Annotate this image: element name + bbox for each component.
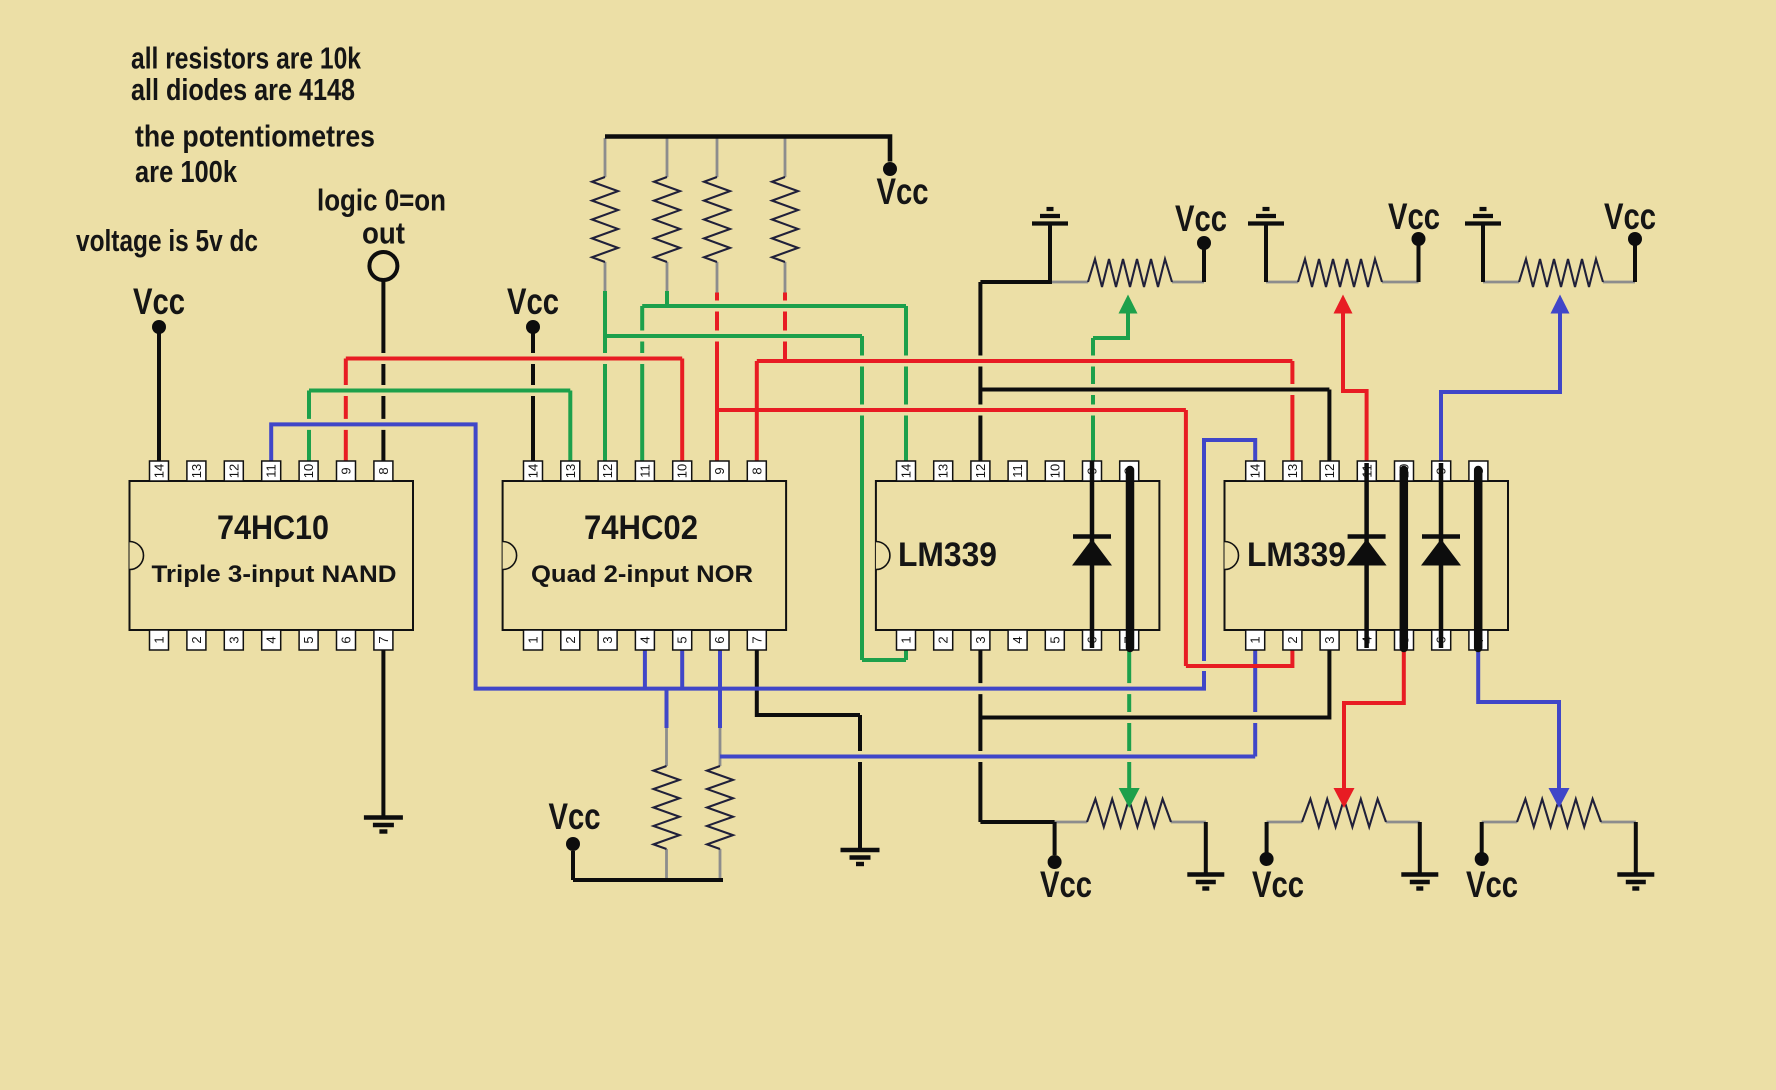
svg-text:11: 11 [264,464,279,478]
svg-text:7: 7 [749,636,764,643]
svg-text:Vcc: Vcc [1466,864,1518,905]
svg-text:out: out [362,216,405,251]
svg-text:6: 6 [339,636,354,643]
svg-text:14: 14 [152,464,167,478]
svg-text:2: 2 [563,636,578,643]
svg-text:logic 0=on: logic 0=on [317,183,446,218]
svg-text:4: 4 [1010,636,1025,643]
svg-text:74HC10: 74HC10 [217,509,329,547]
svg-text:3: 3 [1322,636,1337,643]
svg-text:Vcc: Vcc [507,281,559,322]
svg-text:12: 12 [1322,464,1337,478]
svg-text:Vcc: Vcc [1040,864,1092,905]
svg-text:4: 4 [637,636,652,643]
svg-text:3: 3 [226,636,241,643]
svg-text:3: 3 [973,636,988,643]
svg-text:10: 10 [301,464,316,478]
svg-text:12: 12 [600,464,615,478]
svg-text:Vcc: Vcc [1175,198,1227,239]
svg-text:13: 13 [189,464,204,478]
svg-text:8: 8 [749,467,764,474]
svg-text:all resistors are 10k: all resistors are 10k [131,41,362,76]
svg-text:12: 12 [226,464,241,478]
svg-text:8: 8 [376,467,391,474]
svg-text:5: 5 [301,636,316,643]
svg-text:2: 2 [189,636,204,643]
svg-text:11: 11 [637,464,652,478]
svg-text:9: 9 [712,467,727,474]
svg-text:12: 12 [973,464,988,478]
svg-text:7: 7 [376,636,391,643]
svg-text:14: 14 [1248,464,1263,478]
svg-text:are 100k: are 100k [135,154,238,189]
svg-text:5: 5 [1047,636,1062,643]
svg-text:6: 6 [712,636,727,643]
svg-text:2: 2 [936,636,951,643]
svg-text:Vcc: Vcc [1604,196,1656,237]
svg-text:Vcc: Vcc [877,171,929,212]
svg-text:11: 11 [1010,464,1025,478]
svg-text:Triple 3-input NAND: Triple 3-input NAND [152,561,397,588]
svg-text:the potentiometres: the potentiometres [135,119,375,154]
svg-text:5: 5 [675,636,690,643]
svg-text:Quad 2-input NOR: Quad 2-input NOR [531,561,753,588]
svg-text:1: 1 [899,636,914,643]
svg-text:2: 2 [1285,636,1300,643]
svg-text:14: 14 [526,464,541,478]
svg-text:Vcc: Vcc [133,281,185,322]
svg-text:10: 10 [1047,464,1062,478]
svg-text:1: 1 [1248,636,1263,643]
svg-text:Vcc: Vcc [1252,864,1304,905]
svg-text:74HC02: 74HC02 [584,509,698,547]
svg-text:1: 1 [526,636,541,643]
svg-text:1: 1 [152,636,167,643]
svg-text:Vcc: Vcc [1388,196,1440,237]
svg-text:9: 9 [339,467,354,474]
svg-text:13: 13 [936,464,951,478]
svg-text:10: 10 [675,464,690,478]
svg-text:14: 14 [899,464,914,478]
svg-text:13: 13 [563,464,578,478]
svg-text:4: 4 [264,636,279,643]
svg-text:all diodes are 4148: all diodes are 4148 [131,72,355,107]
svg-text:voltage is 5v dc: voltage is 5v dc [76,223,258,258]
svg-text:Vcc: Vcc [549,796,601,837]
svg-text:LM339: LM339 [1247,536,1346,574]
svg-text:3: 3 [600,636,615,643]
svg-text:13: 13 [1285,464,1300,478]
svg-text:LM339: LM339 [898,536,997,574]
